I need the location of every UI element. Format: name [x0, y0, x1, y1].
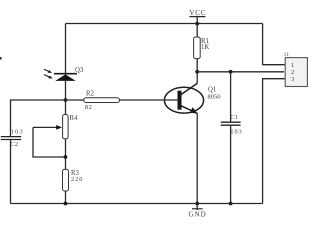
svg-text:C2: C2 — [10, 141, 18, 148]
wire R3 bottom lead — [65, 191, 67, 204]
svg-text:2: 2 — [291, 69, 294, 76]
svg-text:R2: R2 — [86, 91, 95, 98]
capacitor C2 — [1, 129, 24, 148]
svg-text:103: 103 — [11, 129, 24, 136]
svg-text:103: 103 — [230, 128, 242, 135]
wire Q3 top lead — [65, 24, 67, 74]
junction R3 ground node — [64, 202, 68, 206]
wire collector node to J1 pin2 — [197, 71, 284, 73]
svg-text:C1: C1 — [230, 114, 238, 121]
photodiode Q3 — [44, 67, 84, 81]
svg-text:1K: 1K — [201, 44, 209, 51]
potentiometer R4 — [33, 115, 78, 158]
wire VCC junction to R1 top — [196, 24, 198, 38]
wire R2 to Q1 base — [119, 99, 178, 101]
wire R4 bottom to R3 top — [65, 139, 67, 170]
edge artifact mark — [0, 57, 2, 60]
junction wiper return node — [64, 155, 68, 159]
svg-text:82: 82 — [85, 104, 93, 111]
wire node to R4 top — [65, 100, 67, 115]
wire C1 top lead — [230, 72, 232, 122]
svg-text:1: 1 — [291, 62, 294, 69]
svg-text:3: 3 — [291, 76, 294, 83]
wire C1 bottom lead — [230, 125, 232, 203]
power symbol VCC — [189, 9, 206, 24]
junction base row node — [64, 98, 68, 102]
capacitor C1 — [221, 114, 243, 135]
resistor R3 — [63, 169, 84, 191]
wire node to R2 left lead — [66, 99, 85, 101]
wire top rail from Q3 top to J1 pin1 branch — [66, 23, 263, 25]
wire J1 pin3 branch — [263, 79, 285, 204]
junction VCC node — [195, 22, 199, 26]
ground GND — [189, 204, 207, 219]
svg-text:R4: R4 — [70, 115, 79, 122]
wire left rail top segment — [11, 100, 66, 136]
wire ground rail — [11, 203, 263, 205]
resistor R1 — [194, 37, 210, 59]
svg-text:VCC: VCC — [189, 9, 206, 17]
junction C1 bottom node — [229, 202, 233, 206]
resistor R2 — [84, 91, 120, 111]
svg-text:220: 220 — [71, 176, 83, 183]
svg-text:GND: GND — [189, 210, 207, 218]
svg-text:8050: 8050 — [208, 94, 221, 101]
junction C1 top node — [229, 70, 233, 74]
wire J1 pin1 branch — [263, 24, 285, 65]
junction emitter ground node — [195, 202, 199, 206]
transistor Q1 — [164, 83, 220, 113]
wire left rail bottom segment — [10, 140, 12, 204]
wire R1 bottom to collector — [196, 59, 198, 84]
svg-text:Q3: Q3 — [75, 67, 84, 74]
wire emitter down to ground rail — [196, 113, 198, 203]
junction collector / pin2 node — [195, 70, 199, 74]
wire Q3 bottom lead — [65, 81, 67, 100]
svg-text:J1: J1 — [284, 52, 290, 58]
svg-text:Q1: Q1 — [208, 87, 216, 94]
connector J1 — [284, 52, 308, 87]
